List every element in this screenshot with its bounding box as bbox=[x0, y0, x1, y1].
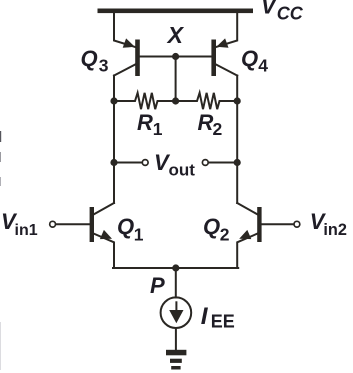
svg-text:Q: Q bbox=[241, 46, 258, 71]
wire P to current source bbox=[175, 268, 177, 298]
transistor Q2 base wire bbox=[262, 223, 294, 225]
current source IEE circle bbox=[161, 297, 192, 328]
svg-text:Q: Q bbox=[81, 46, 98, 71]
transistor Q2 body bar bbox=[257, 207, 261, 242]
label R1 bbox=[137, 110, 163, 139]
svg-text:Q: Q bbox=[203, 214, 220, 239]
label Vin1 bbox=[1, 209, 38, 239]
wire Vout left bbox=[114, 162, 142, 164]
svg-text:V: V bbox=[261, 0, 278, 19]
label IEE bbox=[201, 303, 235, 332]
svg-text:R: R bbox=[137, 110, 153, 135]
wire rail to Q3 emitter bbox=[114, 13, 135, 47]
transistor Q1 emitter wire bbox=[94, 234, 115, 269]
transistor Q4 emitter arrow bbox=[216, 38, 228, 47]
VCC supply rail bbox=[98, 9, 254, 14]
terminal circle Vin1 bbox=[50, 221, 56, 227]
transistor Q4 body bar bbox=[211, 40, 216, 77]
wire node X down to resistor midpoint bbox=[175, 57, 177, 102]
svg-text:X: X bbox=[166, 22, 185, 48]
svg-text:Q: Q bbox=[117, 214, 134, 239]
svg-text:CC: CC bbox=[277, 3, 304, 23]
svg-text:out: out bbox=[169, 161, 196, 180]
transistor Q2 emitter wire bbox=[237, 234, 258, 269]
transistor Q2 collector wire bbox=[237, 203, 258, 215]
svg-text:2: 2 bbox=[213, 119, 223, 139]
label Vin2 bbox=[310, 209, 347, 239]
transistor Q2 emitter arrow bbox=[239, 230, 251, 239]
svg-text:1: 1 bbox=[153, 119, 163, 139]
terminal circle Vout left bbox=[142, 160, 148, 166]
label R2 bbox=[198, 110, 223, 139]
svg-text:3: 3 bbox=[99, 56, 109, 76]
node P dot bbox=[172, 264, 179, 271]
transistor Q4 collector wire bbox=[216, 65, 237, 76]
label Q3 bbox=[81, 46, 109, 76]
svg-text:P: P bbox=[150, 273, 165, 298]
label Q1 bbox=[117, 214, 144, 245]
terminal circle Vin2 bbox=[294, 221, 300, 227]
resistor R1 bbox=[114, 93, 176, 109]
resistor R2 bbox=[176, 93, 238, 109]
node dot R1 left bbox=[110, 97, 117, 104]
label Vout bbox=[154, 150, 195, 180]
wire Vout right bbox=[208, 162, 237, 164]
transistor Q1 base wire bbox=[56, 223, 90, 225]
transistor Q3 emitter arrow bbox=[123, 38, 135, 47]
svg-text:in1: in1 bbox=[15, 222, 38, 239]
left column wire bbox=[113, 76, 115, 204]
right column wire bbox=[236, 76, 238, 204]
page edge artifacts bbox=[0, 131, 1, 370]
svg-text:EE: EE bbox=[211, 312, 235, 332]
svg-text:R: R bbox=[198, 110, 214, 135]
node dot Vout right bbox=[234, 159, 241, 166]
node dot resistor midpoint bbox=[172, 97, 179, 104]
transistor Q3 collector wire bbox=[114, 65, 135, 76]
label Q2 bbox=[203, 214, 230, 245]
transistor Q1 collector wire bbox=[94, 203, 115, 215]
transistor Q1 body bar bbox=[90, 207, 94, 242]
wire rail to Q4 emitter bbox=[216, 13, 237, 47]
svg-text:I: I bbox=[201, 303, 209, 330]
svg-text:2: 2 bbox=[220, 225, 230, 245]
wire current source to ground bbox=[175, 328, 177, 350]
ground symbol bbox=[166, 350, 186, 356]
svg-text:in2: in2 bbox=[323, 221, 347, 239]
label VCC bbox=[261, 0, 304, 23]
current source arrow bbox=[175, 302, 177, 311]
svg-text:1: 1 bbox=[134, 225, 144, 245]
transistor Q3 body bar bbox=[135, 40, 140, 77]
node dot R2 right bbox=[234, 97, 241, 104]
svg-text:4: 4 bbox=[258, 56, 268, 76]
base wire Q3-X-Q4 bbox=[140, 56, 212, 58]
node X dot bbox=[172, 53, 179, 60]
transistor Q1 emitter arrow bbox=[100, 230, 112, 239]
node dot Vout left bbox=[110, 159, 117, 166]
terminal circle Vout right bbox=[202, 160, 208, 166]
label Q4 bbox=[241, 46, 268, 76]
tail wire to node P bbox=[113, 267, 238, 269]
